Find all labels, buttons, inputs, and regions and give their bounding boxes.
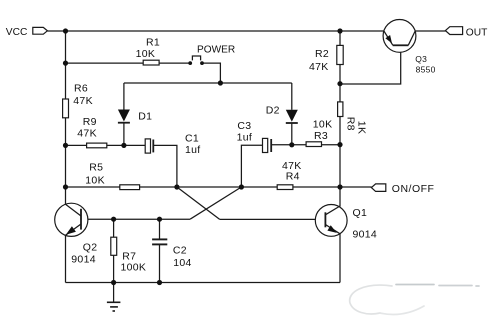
svg-text:R3: R3 — [314, 130, 328, 142]
wire: Q1 emitter drop — [339, 234, 341, 283]
transistor Q3 8550 — [383, 20, 436, 75]
wire: Q2 emitter drop — [65, 235, 67, 282]
wire: R7 branch vertical — [113, 219, 115, 282]
junction: D1 cathode / R9 / C1 — [121, 143, 126, 148]
capacitor C3 — [237, 120, 272, 153]
wire: D2 anode lead — [291, 83, 293, 110]
wire: bottom rail — [66, 282, 341, 284]
resistor R4 — [277, 160, 301, 189]
svg-text:47K: 47K — [77, 127, 97, 139]
resistor R5 — [85, 162, 139, 190]
svg-text:Q3: Q3 — [415, 54, 427, 64]
svg-text:R1: R1 — [146, 37, 160, 49]
wire: C3 left lead with corner — [241, 145, 262, 187]
junction: switch drop / diode link — [218, 80, 223, 85]
svg-text:R4: R4 — [286, 171, 300, 183]
wire: Q3 base wire — [340, 45, 401, 84]
wire: right bus (R2/R8 column) — [339, 31, 341, 207]
wire: D1-D2 horizontal link — [124, 82, 292, 84]
junction: left bus / R1 row — [63, 61, 68, 66]
switch POWER (push button) — [188, 45, 235, 65]
svg-text:47K: 47K — [309, 61, 329, 73]
svg-text:10K: 10K — [313, 119, 333, 131]
junction: right bus / ON-OFF row — [337, 184, 342, 189]
svg-text:VCC: VCC — [6, 27, 28, 38]
svg-text:9014: 9014 — [71, 254, 96, 266]
svg-text:1uf: 1uf — [185, 144, 201, 156]
svg-text:R8: R8 — [344, 117, 356, 131]
junction: top rail / R2 top — [337, 28, 342, 33]
junction: Q2 base line / C2 top — [157, 217, 162, 222]
wire: left bus middle (R6 bottom to Q2) — [65, 118, 67, 205]
junction: bottom rail / C2 bottom — [157, 280, 162, 285]
junction: Q2 base line / R7 top — [111, 217, 116, 222]
wire: Q3 collector to OUT — [415, 30, 445, 32]
svg-text:OUT: OUT — [466, 28, 488, 39]
resistor R1 — [136, 37, 160, 65]
svg-text:1K: 1K — [356, 121, 368, 134]
port VCC — [6, 27, 48, 38]
svg-text:POWER: POWER — [197, 45, 235, 56]
resistor R2 — [309, 45, 343, 72]
junction: R8 bottom / R3 right — [337, 142, 342, 147]
svg-text:ON/OFF: ON/OFF — [392, 183, 435, 195]
svg-text:8550: 8550 — [416, 65, 436, 75]
wire: cross diagonal from lower-left up to C3 node — [190, 187, 241, 219]
transistor Q2 9014 — [55, 203, 98, 265]
resistor R8 — [338, 102, 368, 134]
svg-text:104: 104 — [173, 257, 191, 269]
junction: C1 lead / main row — [174, 184, 179, 189]
svg-text:D1: D1 — [138, 111, 152, 123]
resistor R6 — [63, 82, 93, 118]
svg-text:C3: C3 — [237, 120, 251, 132]
wire: R9 row — [66, 144, 146, 146]
wire: D2 cathode lead — [291, 123, 293, 145]
wire: C3 right lead / R3 row — [271, 144, 340, 146]
wire: cross diagonal from C1 node down to Q1 base line — [177, 187, 220, 219]
resistor R9 — [77, 116, 107, 148]
wire: top VCC rail — [47, 30, 384, 32]
svg-text:1uf: 1uf — [237, 132, 253, 144]
port ON/OFF — [371, 183, 434, 195]
wire: left bus upper (VCC to R6) — [65, 31, 67, 99]
transistor Q1 9014 — [315, 205, 377, 241]
svg-text:C1: C1 — [185, 132, 199, 144]
capacitor C1 — [145, 132, 200, 156]
svg-text:10K: 10K — [85, 175, 105, 187]
wire: R1 row — [66, 62, 191, 64]
svg-text:R5: R5 — [89, 162, 103, 174]
wire: to ON/OFF port — [340, 186, 372, 188]
wire: C2 top lead — [159, 219, 161, 239]
svg-text:100K: 100K — [121, 262, 147, 274]
svg-text:R7: R7 — [122, 250, 136, 262]
wire: lower-left row (Q2 base line) — [81, 218, 190, 220]
junction: left bus / R5 row — [63, 184, 68, 189]
wire: switch to corner down — [202, 63, 220, 83]
resistor R3 — [306, 119, 332, 147]
svg-text:R9: R9 — [83, 116, 97, 128]
svg-text:9014: 9014 — [353, 229, 378, 241]
svg-text:C2: C2 — [173, 244, 187, 256]
junction: VCC rail / left bus — [63, 28, 68, 33]
junction: C3 lead / main row — [239, 184, 244, 189]
ground — [107, 283, 121, 312]
resistor R7 — [111, 237, 146, 274]
junction: D2 cathode / C3 / R3 — [289, 142, 294, 147]
junction: bottom rail / R7 bottom / ground — [111, 280, 116, 285]
junction: left bus / R9 row — [63, 143, 68, 148]
svg-text:R6: R6 — [74, 82, 88, 94]
svg-text:D2: D2 — [266, 105, 280, 117]
svg-text:10K: 10K — [136, 48, 156, 60]
svg-text:47K: 47K — [73, 95, 93, 107]
junction: R2 bottom / R8 top / Q3 base — [337, 81, 342, 86]
diode D1 — [118, 83, 152, 145]
wire: C2 bottom lead — [159, 245, 161, 283]
port OUT — [445, 27, 487, 39]
svg-text:Q1: Q1 — [353, 207, 368, 219]
wire: C1 right lead and corner down — [153, 145, 177, 187]
watermark remnants (light gray) — [350, 285, 479, 315]
svg-text:Q2: Q2 — [83, 241, 98, 253]
capacitor C2 — [152, 239, 192, 268]
diode D2 — [266, 105, 298, 124]
wire: lower-right row (Q1 base line) — [220, 218, 326, 220]
svg-text:R2: R2 — [315, 48, 329, 60]
wire: main middle row (R5/R4 line) — [66, 186, 341, 188]
